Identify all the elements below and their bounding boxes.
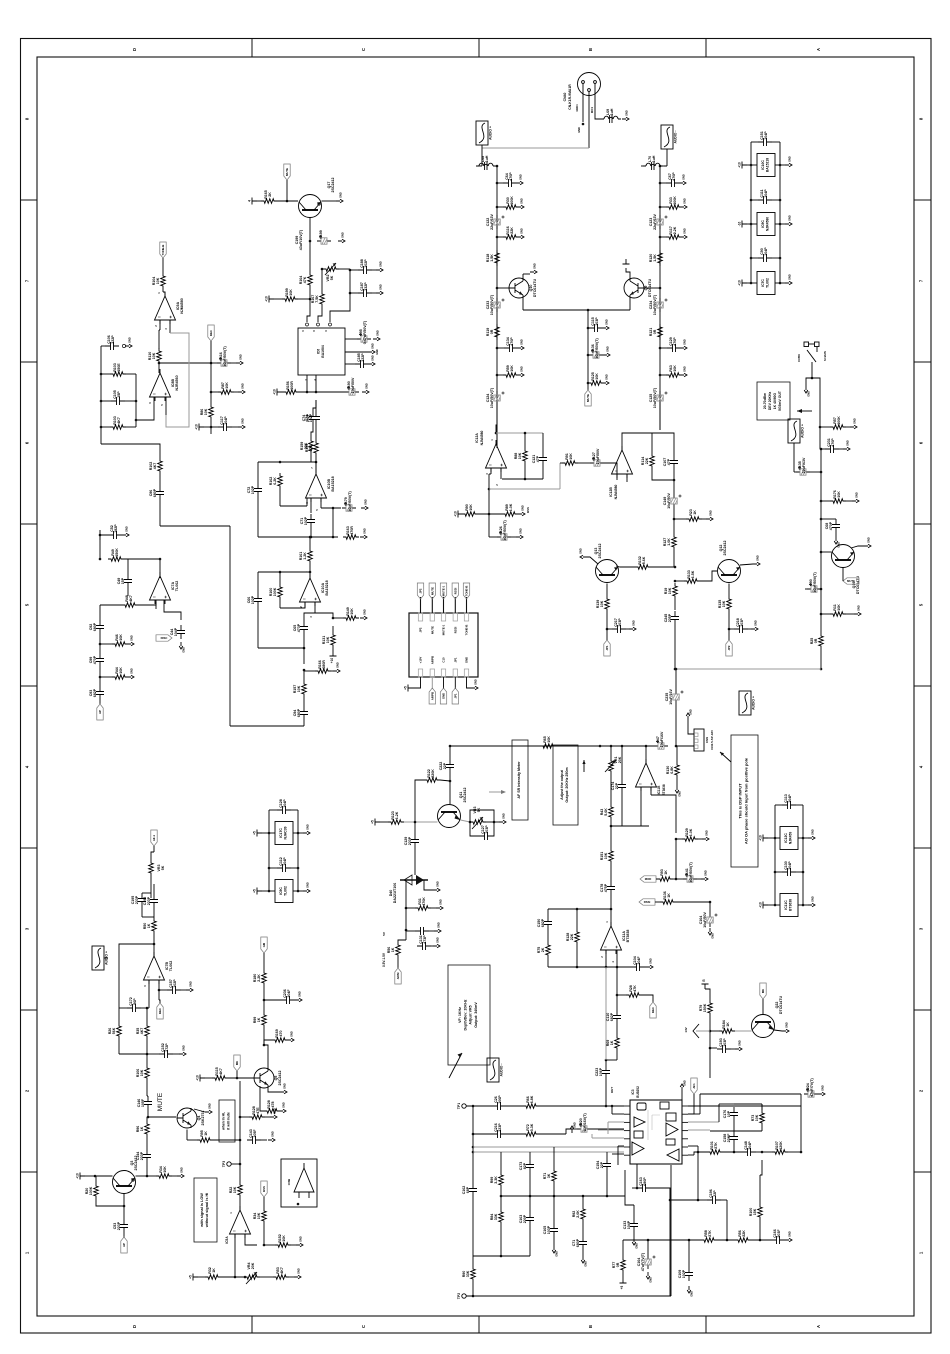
- wire: [264, 1244, 296, 1246]
- svg-text:1uF/16V(T): 1uF/16V(T): [583, 1113, 587, 1132]
- ground: [602, 374, 609, 385]
- svg-text:47P: 47P: [536, 455, 540, 462]
- svg-text:10K: 10K: [722, 600, 726, 607]
- supply +10: [76, 1173, 86, 1180]
- svg-text:GND: GND: [283, 1083, 287, 1089]
- svg-text:2SC2412: 2SC2412: [331, 178, 335, 193]
- ground: [122, 337, 132, 348]
- resistor R33: [666, 196, 682, 209]
- svg-text:105F: 105F: [253, 1129, 257, 1138]
- capacitor C178b: [0, 0, 1, 1]
- svg-text:22P: 22P: [443, 762, 447, 769]
- svg-text:JP1: JP1: [454, 693, 458, 698]
- flag AF/M: [395, 968, 401, 984]
- wire: [142, 893, 154, 917]
- svg-text:+10: +10: [330, 658, 334, 664]
- wire pin2: [589, 92, 594, 149]
- capacitor C112: [277, 857, 291, 872]
- svg-text:GND: GND: [678, 791, 682, 797]
- svg-text:22K: 22K: [510, 227, 514, 234]
- svg-text:4K7: 4K7: [129, 595, 133, 602]
- wire loop1 bottom: [258, 536, 338, 539]
- wire: [147, 1096, 150, 1118]
- ground: [376, 284, 383, 295]
- svg-text:22P: 22P: [713, 1190, 717, 1197]
- resistor R90: [462, 504, 478, 517]
- wire: [659, 206, 666, 209]
- note box VF: [448, 965, 490, 1065]
- wire loop1 left rail: [257, 462, 259, 537]
- wire: [820, 551, 832, 554]
- svg-text:DEV 20KHz: DEV 20KHz: [768, 392, 772, 411]
- svg-text:IC12B: IC12B: [609, 487, 613, 497]
- svg-text:682P: 682P: [610, 1012, 614, 1021]
- capacitor C216: [492, 1123, 506, 1138]
- svg-text:GND: GND: [709, 510, 713, 516]
- resistor R159: [300, 438, 313, 454]
- ground: [499, 813, 506, 824]
- wire: [449, 745, 452, 759]
- svg-text:AP: AP: [122, 1243, 126, 1247]
- ground: [295, 991, 302, 1002]
- wire: [100, 600, 156, 609]
- flag TONE-B: [160, 242, 166, 258]
- wire rails: [751, 142, 780, 283]
- audio source box AUDIO+3: [739, 691, 756, 715]
- pin 1b: [305, 571, 308, 573]
- wire: [659, 236, 666, 239]
- svg-text:GND: GND: [837, 542, 841, 548]
- svg-text:A: A: [816, 48, 821, 51]
- wire: [159, 474, 161, 486]
- flag REC3: [650, 1002, 656, 1018]
- svg-text:D: D: [132, 48, 137, 51]
- svg-text:BA1604: BA1604: [321, 345, 325, 358]
- resistor R115: [212, 1067, 228, 1080]
- wire: [617, 987, 653, 1002]
- flag JP2a: [726, 640, 732, 656]
- wire rail: [239, 1081, 270, 1182]
- resistor R57: [830, 416, 846, 429]
- svg-text:GND: GND: [606, 346, 610, 352]
- svg-text:NJR4560: NJR4560: [175, 375, 179, 390]
- wire: [239, 1198, 241, 1210]
- pin stubs IC6 bottom: [305, 375, 317, 392]
- transistor Q17: [299, 178, 336, 218]
- wire: [760, 1160, 762, 1204]
- wire: [640, 1239, 700, 1255]
- resistor R63: [666, 365, 682, 378]
- wire: [304, 613, 315, 621]
- capacitor C72: [247, 483, 262, 497]
- wire: [303, 648, 306, 671]
- capacitor C179 electrolytic: [342, 491, 356, 512]
- svg-text:1.2K: 1.2K: [303, 552, 307, 560]
- svg-text:GND: GND: [182, 647, 186, 653]
- resistor R101: [707, 1141, 723, 1154]
- svg-text:Depth/Dev: 20KHz: Depth/Dev: 20KHz: [463, 999, 467, 1030]
- svg-text:104P: 104P: [788, 861, 792, 870]
- svg-text:GND: GND: [341, 232, 345, 238]
- capacitor C135 electrolytic: [796, 457, 810, 475]
- pin stubs IC12B: [617, 474, 627, 482]
- wire: [146, 1163, 149, 1177]
- wire: [153, 934, 156, 956]
- resistor R20: [85, 1183, 98, 1199]
- flag AF-1: [151, 830, 157, 846]
- svg-text:MUTE: MUTE: [586, 394, 590, 402]
- resistor R116: [503, 226, 519, 239]
- wire: [414, 822, 416, 868]
- wire: [688, 1121, 719, 1123]
- capacitor C94: [293, 706, 308, 720]
- svg-text:2.2K: 2.2K: [257, 974, 261, 982]
- resistor R100: [749, 1204, 762, 1220]
- flag JP1: [452, 677, 458, 704]
- svg-text:10uF/50V: 10uF/50V: [703, 912, 707, 928]
- ground: [361, 499, 368, 510]
- ground: [338, 232, 345, 243]
- svg-text:GND: GND: [649, 958, 653, 964]
- wire: [733, 1145, 736, 1153]
- resistor R102: [149, 458, 162, 474]
- dual diode D40: [389, 875, 428, 903]
- svg-text:223P: 223P: [498, 1123, 502, 1132]
- supply +5: [253, 888, 263, 895]
- svg-text:RSS: RSS: [526, 507, 530, 513]
- capacitor C68: [825, 519, 840, 533]
- ground: [679, 174, 686, 185]
- svg-text:GND: GND: [584, 1261, 588, 1267]
- flag MUTE: [585, 390, 591, 406]
- svg-text:10K: 10K: [297, 685, 301, 692]
- svg-text:0R: 0R: [814, 638, 818, 643]
- flag TONE-B: [463, 583, 469, 599]
- svg-text:10P: 10P: [727, 1110, 731, 1117]
- wire: [262, 832, 303, 835]
- wire: [676, 745, 694, 747]
- resistor R110: [148, 348, 161, 364]
- resistor R162: [269, 473, 282, 489]
- capacitor C144: [136, 1149, 151, 1163]
- wire rail: [659, 166, 661, 430]
- wire: [96, 1176, 124, 1206]
- svg-text:2SC2412: 2SC2412: [463, 788, 467, 803]
- capacitor C109: [678, 1267, 693, 1281]
- wire: [496, 405, 498, 448]
- wire: [345, 363, 355, 365]
- svg-text:JP1: JP1: [453, 657, 457, 662]
- svg-text:NJHC39: NJHC39: [284, 826, 288, 839]
- label IC12A: [475, 431, 484, 446]
- svg-text:1.0K: 1.0K: [667, 538, 671, 546]
- wire: [261, 1139, 267, 1141]
- wire: [728, 629, 730, 640]
- svg-text:TONE-B: TONE-B: [161, 245, 165, 256]
- svg-text:470P: 470P: [673, 337, 677, 346]
- wire: [286, 180, 289, 202]
- svg-text:22K: 22K: [304, 442, 308, 449]
- svg-text:GND: GND: [436, 881, 440, 887]
- svg-text:AP: AP: [98, 710, 102, 714]
- capacitor C106: [105, 335, 119, 350]
- ground: [433, 881, 440, 892]
- wire: [673, 508, 706, 534]
- svg-text:CN-K1R-9MA1R: CN-K1R-9MA1R: [568, 84, 572, 110]
- svg-text:GND: GND: [519, 528, 523, 534]
- label 5v: [382, 932, 386, 936]
- wire: [775, 804, 803, 806]
- wire: [820, 500, 852, 503]
- svg-text:4K7: 4K7: [219, 1068, 223, 1075]
- wire: [710, 1030, 752, 1032]
- svg-text:Output: 340mV: Output: 340mV: [474, 1002, 478, 1028]
- ground: [336, 192, 343, 203]
- wire: [674, 625, 677, 670]
- svg-text:104P: 104P: [283, 857, 287, 866]
- svg-text:GND: GND: [282, 1102, 286, 1108]
- flag RSS: [261, 1181, 267, 1197]
- wire gray row1: [473, 1146, 624, 1148]
- wire: [263, 1224, 266, 1246]
- wire: [146, 990, 149, 1009]
- note box mute-hi: [219, 1100, 235, 1142]
- test point TP2: [457, 1293, 466, 1299]
- svg-text:GND: GND: [379, 261, 383, 267]
- svg-text:GND: GND: [867, 537, 871, 543]
- audio wire: [793, 443, 795, 472]
- resistor R176: [830, 490, 846, 503]
- svg-text:NJR459: NJR459: [789, 832, 793, 845]
- wire loop2 bottom: [258, 647, 304, 649]
- wire: [496, 182, 503, 185]
- ground: [808, 896, 815, 907]
- svg-text:470P: 470P: [93, 655, 97, 664]
- wire: [587, 354, 590, 357]
- svg-text:REC: REC: [209, 330, 213, 336]
- ic IC6 BA1604: [298, 328, 345, 375]
- svg-text:GND: GND: [365, 383, 369, 389]
- svg-text:DA221/T106: DA221/T106: [393, 883, 397, 903]
- svg-text:223P: 223P: [135, 895, 139, 904]
- wire: [268, 867, 300, 870]
- svg-text:+10: +10: [196, 1075, 200, 1081]
- resistor R167: [311, 291, 324, 307]
- svg-text:5K: 5K: [161, 865, 165, 870]
- wire: [268, 1088, 280, 1092]
- svg-text:C: C: [361, 1325, 366, 1328]
- capacitor C236: [281, 989, 295, 1004]
- wire: [608, 1122, 624, 1134]
- ground: [516, 174, 523, 185]
- svg-text:1K: 1K: [140, 1126, 144, 1131]
- svg-text:RSSI: RSSI: [453, 627, 457, 634]
- svg-text:TL062: TL062: [766, 278, 770, 288]
- svg-text:4K7: 4K7: [280, 1267, 284, 1274]
- svg-text:4K7: 4K7: [153, 463, 157, 470]
- svg-text:10uF/50V(T): 10uF/50V(T): [490, 294, 494, 315]
- wire: [659, 347, 667, 350]
- wire: [656, 839, 683, 880]
- svg-text:223P: 223P: [117, 1221, 121, 1230]
- svg-text:GND: GND: [239, 354, 243, 360]
- wire: [211, 362, 236, 364]
- svg-text:10K: 10K: [837, 491, 841, 498]
- svg-text:+5: +5: [253, 831, 257, 835]
- wire bottom: [473, 1255, 530, 1257]
- resistor R131: [322, 632, 335, 648]
- svg-text:1.5K: 1.5K: [653, 254, 657, 262]
- wire: [307, 299, 310, 322]
- svg-text:100K: 100K: [510, 196, 514, 205]
- svg-text:IC5A: IC5A: [225, 1236, 229, 1244]
- svg-text:1K 40/60G: 1K 40/60G: [773, 392, 777, 409]
- svg-text:JP2: JP2: [419, 627, 423, 632]
- transistor Q3: [113, 1156, 139, 1194]
- wire: [263, 1197, 265, 1208]
- wire rail: [820, 472, 823, 670]
- svg-text:0.5V-1.5V: 0.5V-1.5V: [382, 952, 386, 967]
- wire: [159, 330, 160, 349]
- svg-text:10K: 10K: [600, 600, 604, 607]
- wire: [269, 809, 298, 811]
- svg-text:0R: 0R: [490, 329, 494, 334]
- svg-text:AF/M: AF/M: [396, 972, 400, 980]
- ground: [127, 635, 134, 646]
- wire: [610, 895, 613, 910]
- svg-text:10K: 10K: [289, 289, 293, 296]
- wire: [820, 427, 823, 472]
- svg-text:22uF/63V: 22uF/63V: [490, 214, 494, 230]
- label IC5A: [225, 1236, 229, 1244]
- wire: [263, 953, 265, 970]
- ground: [179, 1045, 186, 1056]
- wire vr3 loop: [470, 810, 494, 836]
- svg-text:2SC2412: 2SC2412: [134, 1156, 138, 1171]
- resistor R34b: [253, 1208, 266, 1224]
- wire dsp left pins: [611, 1105, 624, 1114]
- svg-text:GND: GND: [376, 349, 379, 355]
- svg-text:150E: 150E: [117, 363, 121, 372]
- wire: [805, 588, 822, 591]
- svg-text:GND: GND: [821, 1085, 825, 1091]
- wire: [124, 558, 161, 578]
- wire: [523, 309, 630, 312]
- svg-text:GND: GND: [128, 337, 132, 343]
- wire: [500, 1152, 503, 1197]
- wire gray row: [380, 821, 438, 824]
- ground: [127, 668, 134, 679]
- capacitor C53: [113, 1219, 128, 1233]
- svg-text:332P: 332P: [364, 282, 368, 291]
- flag MK2: [760, 983, 766, 999]
- svg-text:100R: 100R: [290, 381, 294, 390]
- ic IC11C: [780, 894, 798, 917]
- wire: [820, 518, 836, 537]
- resistor R118: [486, 250, 499, 266]
- capacitor C195b: [131, 893, 146, 907]
- wire: [751, 141, 780, 143]
- svg-text:REC: REC: [158, 1008, 162, 1014]
- transistor Q19: [832, 545, 861, 595]
- ground: [686, 709, 692, 720]
- svg-text:10uF/50V: 10uF/50V: [596, 448, 600, 464]
- svg-text:120K: 120K: [779, 1141, 783, 1150]
- ground: [579, 548, 588, 559]
- wire: [210, 392, 212, 434]
- wire: [280, 572, 305, 608]
- svg-text:68P: 68P: [466, 1186, 470, 1193]
- capacitor C130: [782, 861, 796, 876]
- svg-text:GND: GND: [299, 1236, 303, 1242]
- svg-text:GND: GND: [846, 440, 850, 446]
- capacitor C224 electrolytic: [804, 1078, 818, 1098]
- svg-text:10K: 10K: [547, 736, 551, 743]
- supply -10: [0, 0, 1, 1]
- wire: [321, 268, 352, 272]
- wire: [449, 773, 452, 804]
- svg-text:1.0K: 1.0K: [509, 503, 513, 511]
- svg-text:GND: GND: [811, 829, 815, 835]
- pin stubs IC12A: [486, 468, 501, 486]
- svg-text:1K: 1K: [610, 1040, 614, 1045]
- wire loop: [611, 795, 649, 826]
- svg-text:CN40: CN40: [563, 93, 567, 102]
- svg-text:TONE-B: TONE-B: [465, 586, 469, 597]
- capacitor C131: [417, 935, 431, 950]
- svg-text:680P: 680P: [93, 622, 97, 631]
- wire: [688, 1094, 694, 1114]
- capacitor C124 electrolytic: [486, 387, 505, 408]
- wire: [523, 274, 530, 278]
- svg-text:AF SR Intensity Meter: AF SR Intensity Meter: [517, 761, 521, 799]
- ground: [362, 383, 369, 394]
- wire: [747, 164, 785, 167]
- ground: [735, 1040, 742, 1051]
- svg-text:GND: GND: [520, 198, 524, 204]
- ground: [360, 609, 367, 620]
- ic IC3 DSP: [624, 1086, 688, 1164]
- wire: [774, 1030, 782, 1031]
- wire: [406, 907, 436, 909]
- wire: [709, 1048, 711, 1078]
- capacitor C74: [305, 411, 320, 425]
- wire: [204, 426, 212, 429]
- svg-text:GND: GND: [439, 899, 443, 905]
- audio source box AUDIO+2: [788, 419, 805, 443]
- inductor L70: [643, 155, 663, 170]
- wire: [236, 1071, 239, 1079]
- supply +10: [738, 280, 748, 287]
- transistor Q5: [254, 1068, 282, 1088]
- arrow 14V: [684, 1024, 699, 1038]
- capacitor C176: [723, 1107, 738, 1121]
- wire: [612, 1153, 624, 1155]
- ground: [179, 642, 185, 653]
- wire: [263, 1028, 266, 1046]
- wire: [304, 670, 333, 672]
- wire: [470, 822, 479, 836]
- svg-text:10uF/50V: 10uF/50V: [667, 493, 671, 509]
- wire: [94, 1175, 147, 1178]
- svg-text:+10: +10: [454, 511, 458, 517]
- svg-text:103P: 103P: [740, 618, 744, 627]
- svg-text:14V: 14V: [684, 1027, 688, 1032]
- capacitor C47 electrolytic: [654, 731, 668, 749]
- svg-text:1K: 1K: [693, 510, 697, 515]
- svg-text:104P: 104P: [748, 1141, 752, 1150]
- ic IC7C: [757, 272, 775, 295]
